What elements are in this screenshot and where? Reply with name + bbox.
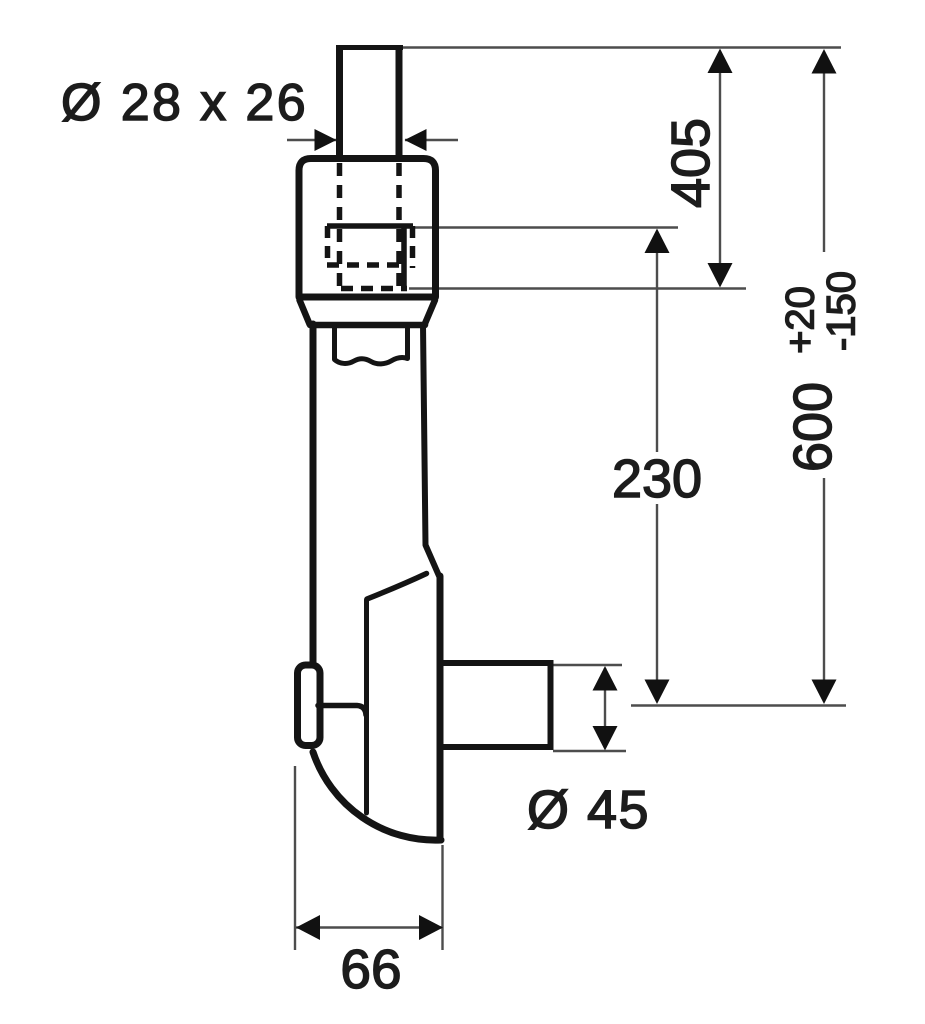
- svg-text:66: 66: [340, 938, 401, 1000]
- svg-text:230: 230: [612, 449, 702, 509]
- svg-text:Ø 45: Ø 45: [527, 780, 650, 840]
- svg-text:Ø 28 x 26: Ø 28 x 26: [61, 74, 308, 132]
- svg-text:-150: -150: [820, 271, 864, 351]
- svg-text:+20: +20: [779, 286, 823, 354]
- svg-text:405: 405: [661, 118, 721, 208]
- svg-text:600: 600: [783, 382, 843, 472]
